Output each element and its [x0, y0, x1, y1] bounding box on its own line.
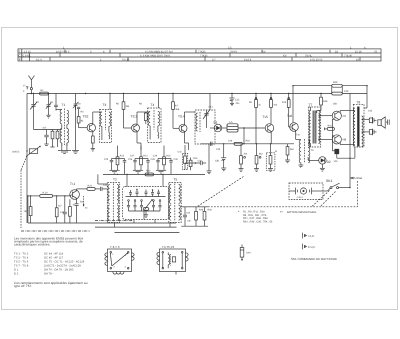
svg-text:T4,T5,T6: T4,T5,T6: [162, 245, 175, 249]
switch contact a: [127, 200, 130, 211]
wire: bottom rail 3: [115, 232, 180, 234]
svg-text:6 5 KN MB/B-41 6/7 N 6: 6 5 KN MB/B-41 6/7 N 6: [145, 50, 173, 53]
resistor R9 AGC: [255, 94, 258, 144]
svg-text:77K35: 77K35: [200, 55, 208, 58]
svg-text:C30: C30: [174, 158, 179, 161]
svg-text:15 18: 15 18: [355, 50, 362, 53]
resistor R12 on emitter bus: [145, 170, 154, 176]
transformer T7 driver: [309, 103, 321, 147]
wire switch box bottom: [129, 211, 161, 223]
wire T8 feed: [366, 86, 368, 108]
svg-text:R34 , R36 , C45 , 75K , 53: R34 , R36 , C45 , 75K , 53: [243, 221, 273, 224]
callout dashed lines from SK1: [312, 191, 336, 207]
wire: mechanical dash link from volume control: [21, 156, 90, 231]
capacitor C53 in switch unit: [151, 189, 154, 196]
capacitor C52 in switch unit: [145, 190, 148, 197]
svg-text:9 1,O.: 9 1,O.: [308, 246, 316, 249]
transformer T4a last IF (dashed unit): [195, 110, 215, 144]
svg-text:5.5: 5.5: [228, 46, 232, 49]
wire TS6 emitter to T6: [296, 130, 301, 139]
transformer T8 output: [353, 101, 364, 148]
svg-text:778.00: 778.00: [344, 55, 352, 58]
svg-text:KV: KV: [283, 55, 287, 58]
svg-text:R29: R29: [333, 81, 338, 84]
callout dashed line from switch unit to parts list: [197, 177, 244, 207]
svg-text:TS 1 - TS 2: TS 1 - TS 2: [14, 253, 29, 256]
legend: battery cell 9V: [303, 244, 308, 250]
wire emitters junction: [332, 119, 336, 151]
svg-text:Tr.1: Tr.1: [70, 182, 76, 186]
resistor R10 AGC: [270, 94, 273, 124]
resistor R1 on rail: [40, 89, 49, 95]
dial scale numbers: [19, 46, 378, 61]
svg-text:C25: C25: [104, 158, 109, 161]
svg-text:R16: R16: [193, 157, 198, 160]
wire TS3 collector: [137, 112, 150, 125]
parts list (starred references): [238, 210, 316, 224]
antenna: [28, 76, 34, 94]
wire T4 feed from rail: [158, 94, 160, 109]
wire TS3 emitter: [137, 131, 141, 150]
capacitor C10 trimmer in detector unit: [203, 110, 210, 129]
switch contact e: [159, 200, 162, 211]
wire detector to AGC bus: [243, 128, 245, 144]
svg-text:78 KV: 78 KV: [230, 50, 237, 53]
svg-text:T8: T8: [357, 101, 361, 105]
wire TS5 emitter to AGC bus: [270, 131, 272, 143]
svg-text:OC 44 - AF 114: OC 44 - AF 114: [44, 253, 64, 256]
svg-text:TS 2 - TS 4: TS 2 - TS 4: [14, 257, 29, 260]
switch contact d: [152, 200, 155, 211]
svg-text:Tv5: Tv5: [263, 115, 269, 119]
svg-text:D1: D1: [214, 121, 218, 125]
transformer T2: [107, 178, 119, 223]
wire AGC dashed feedback: [83, 196, 89, 210]
svg-text:C31: C31: [178, 151, 183, 154]
capacitor C51 in switch unit: [136, 189, 139, 197]
svg-text:C27: C27: [130, 155, 135, 158]
wire volume to TS1: [28, 196, 40, 223]
transistor TS5: [263, 115, 274, 133]
emitter network cluster 3: [156, 146, 173, 175]
svg-text:1.3 15: 1.3 15: [24, 50, 32, 53]
wire from IF bus into T2: [98, 174, 107, 184]
svg-text:R15: R15: [166, 155, 171, 158]
capacitor C54 in switch unit: [157, 190, 160, 197]
svg-text:T5: T5: [174, 178, 178, 182]
svg-text:T3: T3: [103, 103, 107, 107]
legend: electrolytic capacitor symbol: [240, 245, 244, 262]
svg-text:16.B7 9 4 5: 16.B7 9 4 5: [56, 50, 70, 53]
transistor TS6 driver: [287, 114, 298, 131]
diode D2: [308, 157, 331, 171]
svg-text:N8: N8: [343, 138, 347, 142]
resistor R5: [122, 94, 131, 129]
svg-text:6 6 10: 6 6 10: [122, 59, 130, 62]
svg-text:R13: R13: [120, 155, 125, 158]
capacitor C1 tuning gang section: [30, 94, 37, 130]
svg-text:E.8 GL: E.8 GL: [23, 55, 32, 58]
note: transistor substitution table: [14, 236, 88, 288]
svg-text:4 55 20 55: 4 55 20 55: [310, 59, 323, 62]
connector jack 2: [362, 129, 377, 136]
transformer T3: [100, 103, 112, 143]
resistor R23: [69, 199, 72, 223]
dial scale band-label column: [22, 49, 30, 61]
svg-text:R31: R31: [328, 124, 333, 127]
detail drawing T2,T3: [105, 245, 188, 275]
wire TS6 collector feed: [292, 86, 294, 123]
svg-text:N7: N7: [343, 114, 347, 118]
svg-text:T1: T1: [62, 103, 66, 107]
transformer T6: [299, 139, 310, 168]
svg-text:C49: C49: [344, 90, 349, 93]
component value labels: [23, 84, 373, 214]
resistor R25 thermistor: [334, 149, 339, 163]
capacitor C5 trimmer right of T1: [73, 94, 79, 111]
svg-text:C35: C35: [216, 148, 221, 151]
wire T3 feed from rail: [109, 94, 111, 110]
svg-text:C28: C28: [151, 158, 156, 161]
wire: AGC bus: [201, 143, 294, 145]
ground under T1: [58, 143, 71, 153]
transformer T1: [56, 103, 69, 146]
resistor R7: [172, 94, 179, 129]
diode D1: [210, 121, 222, 132]
wire battery positive line: [349, 94, 351, 188]
switch contact b: [134, 200, 137, 211]
svg-text:25,9mA: 25,9mA: [353, 176, 363, 180]
svg-text:TS 7 - TS 8: TS 7 - TS 8: [14, 265, 29, 268]
resistor R28 below T5: [187, 207, 197, 226]
wire: upper output rail: [293, 85, 367, 87]
svg-text:BATTERIJ BEVESTIGING: BATTERIJ BEVESTIGING: [287, 211, 316, 214]
svg-text:TS.3: TS.3: [131, 115, 138, 119]
transistor TS2: [83, 115, 96, 132]
resistor R4 TS2 emitter: [91, 136, 95, 151]
resistor R19: [287, 94, 292, 128]
svg-text:T7: T7: [309, 103, 313, 107]
svg-text:Tv6: Tv6: [287, 114, 293, 118]
svg-text:R19: R19: [282, 101, 287, 104]
transistor TS4: [178, 115, 187, 133]
emitter network cluster 1: [109, 146, 126, 175]
transistor TS7: [332, 102, 346, 120]
svg-text:C29: C29: [153, 155, 158, 158]
resistor R30 below T5: [203, 207, 206, 226]
wire TS1 collector: [77, 189, 87, 191]
svg-text:R14: R14: [143, 155, 148, 158]
resistor R2 under T1: [50, 130, 54, 148]
wire detector unit feed: [209, 94, 211, 111]
wire T8 top lead: [364, 107, 367, 109]
svg-text:TS 5 - TS 6: TS 5 - TS 6: [14, 261, 29, 264]
svg-text:C81: C81: [215, 160, 220, 163]
svg-text:D 2: D 2: [14, 273, 19, 276]
resistor R8 + capacitor C11 parallel pair: [222, 121, 265, 132]
svg-text:OA 79 -: OA 79 -: [44, 273, 54, 276]
transistor TS3: [131, 115, 140, 133]
svg-text:C15: C15: [235, 99, 240, 102]
capacitor C50 in switch unit: [129, 190, 132, 197]
svg-text:6.: 6.: [364, 46, 366, 49]
capacitor C41 coupling: [100, 187, 107, 191]
resistor R17 (starred, dashed outline): [266, 144, 275, 172]
svg-text:I 2,O.: I 2,O.: [308, 235, 315, 238]
svg-text:R12: R12: [146, 170, 151, 173]
svg-text:77K35: 77K35: [198, 50, 206, 53]
resistor R2a under T1: [56, 130, 59, 148]
svg-text:type AF 757.: type AF 757.: [14, 284, 32, 288]
svg-text:T 2,T 3: T 2,T 3: [110, 245, 120, 249]
resistor R14 on AGC bus: [234, 142, 242, 145]
transistor TS1: [70, 182, 80, 199]
resistor R16: [254, 144, 261, 172]
transformer T4: [148, 103, 161, 143]
wire TS7 collector to T8: [340, 111, 355, 113]
svg-text:100/ ·: 100/ ·: [246, 252, 252, 255]
svg-text:R18: R18: [246, 140, 251, 143]
resistor R3 base feed: [77, 107, 87, 128]
resistor R15: [239, 144, 246, 172]
svg-text:C33: C33: [368, 110, 373, 113]
wire AVC down to ground: [72, 106, 79, 154]
dial scale outer box: [18, 49, 381, 61]
svg-text:C42: C42: [103, 184, 108, 187]
svg-text:C26: C26: [128, 158, 133, 161]
detail drawing T4,T5,T6: [157, 245, 188, 275]
svg-text:R.20: R.20: [43, 191, 49, 194]
svg-text:78 HL: 78 HL: [305, 55, 312, 58]
resistor R24: [87, 184, 100, 190]
resistor R27 + capacitor C30 parallel on rails: [332, 81, 349, 95]
resistor R6: [144, 112, 147, 124]
wire TS2 collector: [93, 112, 102, 124]
label: supply current: [351, 176, 363, 180]
switch contact c: [140, 200, 143, 211]
svg-text:P: P: [19, 58, 21, 62]
emitter network cluster 5 (dashed): [182, 144, 211, 174]
wire: bottom rail 2: [95, 226, 177, 228]
svg-text:SK1: SK1: [326, 179, 333, 183]
svg-text:1M/0,5: 1M/0,5: [12, 151, 20, 154]
node: aerial terminal: [26, 87, 28, 90]
wire: left vertical bus: [26, 94, 28, 224]
legend: battery cell 1.5V: [303, 233, 308, 239]
callout dashed horizontal above legend: [183, 206, 358, 208]
resistor R40 in switch unit: [143, 208, 149, 218]
svg-text:caractéristiques voisines.: caractéristiques voisines.: [14, 242, 50, 246]
capacitor C3 trimmer: [54, 94, 58, 111]
wire: bottom rail 1: [28, 222, 176, 224]
svg-text:T4: T4: [151, 103, 155, 107]
battery B1 (dashed outline): [289, 183, 330, 200]
svg-text:OC 45 - AF 117: OC 45 - AF 117: [44, 257, 64, 260]
callout dashed right edge: [357, 181, 359, 207]
resistor R22: [55, 196, 58, 223]
resistor R21: [24, 196, 33, 223]
svg-text:C32: C32: [198, 160, 203, 163]
wire T2 bottom stub: [114, 223, 116, 228]
connector jack 1: [362, 117, 377, 124]
wire TS8 collector to T8: [340, 143, 355, 145]
capacitor C33 at speaker: [386, 120, 389, 125]
band switch unit SK (dashed box): [123, 174, 169, 219]
transistor TS8: [332, 135, 346, 144]
wire T7 to TS8 base: [318, 138, 332, 140]
switch lever: [145, 199, 153, 210]
svg-text:2xOC72 - 2xOC74 - 2xAC128: 2xOC72 - 2xOC74 - 2xAC128: [44, 265, 81, 268]
wire: mechanical dash-dot link horizontal: [95, 220, 133, 222]
loudspeaker: [378, 117, 385, 128]
svg-text:C14: C14: [209, 106, 214, 109]
wire T7 to TS7 base: [318, 115, 332, 117]
svg-text:4 45 4: 4 45 4: [297, 196, 304, 199]
svg-text:D2: D2: [327, 160, 331, 164]
svg-text:R30: R30: [208, 209, 213, 212]
svg-text:R24: R24: [88, 184, 93, 187]
svg-text:TS2: TS2: [83, 115, 89, 119]
wire T5 bottom stub: [169, 223, 171, 228]
svg-text:T2: T2: [113, 178, 117, 182]
svg-text:R26: R26: [323, 100, 328, 103]
capacitor C4 under T1: [34, 130, 62, 146]
svg-text:OA 70 - OA 79 - 1N 295: OA 70 - OA 79 - 1N 295: [44, 269, 74, 272]
capacitor C15 electrolytic on rail: [229, 94, 240, 106]
resistor R26: [317, 94, 328, 114]
svg-text:125: 125: [334, 160, 339, 163]
resistor R20: [40, 191, 70, 197]
transformer T5: [169, 178, 181, 223]
svg-text:C36: C36: [228, 140, 233, 143]
emitter network cluster 2: [133, 146, 150, 175]
capacitor C40: [63, 196, 67, 223]
svg-text:1M: 1M: [24, 210, 27, 213]
dial scale tick marks row 2: [60, 53, 342, 56]
svg-text:6 7: 6 7: [212, 59, 216, 62]
svg-text:TS.4: TS.4: [178, 115, 185, 119]
svg-text:C40: C40: [60, 211, 65, 214]
potentiometer R11 volume: [12, 146, 41, 157]
wire TS4 emitter: [185, 131, 189, 150]
svg-text:SK1 COMMANDE DE BATTERIJE: SK1 COMMANDE DE BATTERIJE: [291, 257, 337, 261]
wire TS4 collector: [185, 112, 196, 125]
svg-text:D 1: D 1: [14, 269, 19, 272]
resistor R18: [285, 144, 290, 163]
wire: top supply rail: [27, 93, 367, 95]
wire below T5: [181, 207, 208, 226]
svg-text:8.1 6: 8.1 6: [36, 59, 42, 62]
svg-text:R28: R28: [199, 209, 204, 212]
dial scale tick marks row 1: [65, 50, 330, 53]
capacitor C21 electrolytic to ground: [215, 144, 226, 171]
switch SK1: [326, 179, 350, 189]
wire: IF emitter bus: [103, 173, 205, 175]
resistor R31 between bases: [324, 124, 334, 130]
svg-text:4 16 8: 4 16 8: [244, 59, 252, 62]
wire R25 to T8: [337, 147, 355, 159]
svg-text:12B: 12B: [333, 102, 338, 105]
dial scale tick marks row 3: [50, 57, 360, 60]
capacitor C2 trimmer: [46, 94, 52, 119]
wire TS2 emitter: [92, 131, 94, 136]
capacitor C43 below T5: [183, 207, 187, 226]
svg-text:C43: C43: [186, 212, 191, 215]
capacitor C20 on AGC bus: [211, 142, 213, 146]
svg-text:KV: KV: [262, 50, 266, 53]
svg-text:OC 75 - OC 71 - AC125 - AC126: OC 75 - OC 71 - AC125 - AC126: [44, 261, 85, 264]
wire TS1 emitter: [75, 198, 79, 223]
svg-text:6. 6 KW HKW-G KV TW K: 6. 6 KW HKW-G KV TW K: [140, 55, 170, 58]
